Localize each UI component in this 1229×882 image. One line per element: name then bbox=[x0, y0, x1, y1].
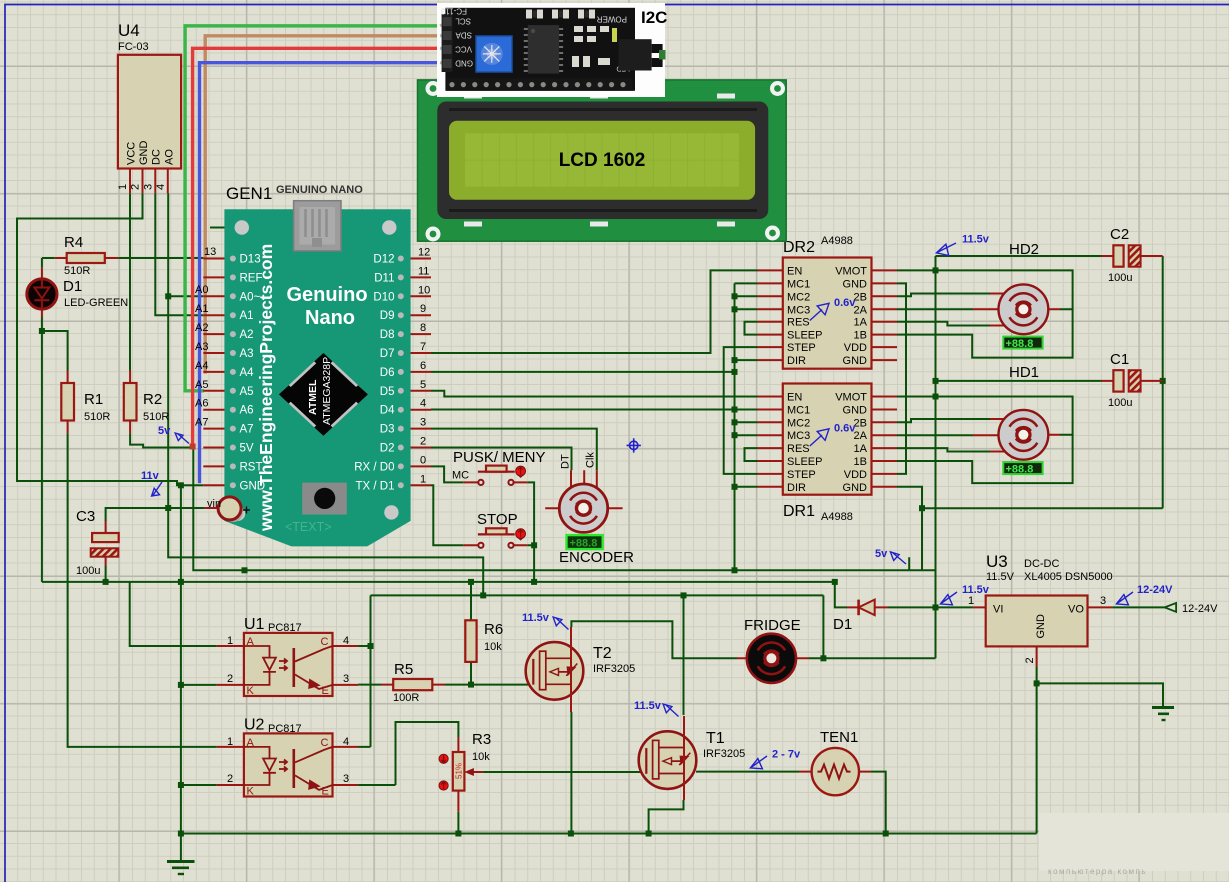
svg-text:A1: A1 bbox=[240, 310, 254, 322]
svg-text:K: K bbox=[247, 786, 255, 798]
blue potentiometer bbox=[476, 36, 512, 72]
svg-text:12-24V: 12-24V bbox=[1137, 584, 1173, 596]
net labels left bbox=[195, 246, 216, 429]
svg-text:DR2: DR2 bbox=[783, 239, 815, 256]
annotation 5v near rails bbox=[875, 548, 906, 564]
DC-DC U3 XL4005 bbox=[968, 552, 1113, 667]
U3 VI wire bbox=[936, 606, 974, 608]
wire U1 pin1 from rail C bbox=[130, 582, 217, 646]
driver DR2 A4988 bbox=[758, 235, 898, 369]
wire R1 top to D1 net bbox=[42, 331, 68, 371]
svg-text:3: 3 bbox=[420, 417, 426, 429]
annotation 12-24V at U3 VO bbox=[1116, 584, 1173, 605]
svg-text:IRF3205: IRF3205 bbox=[593, 663, 635, 675]
svg-text:DT: DT bbox=[560, 454, 572, 469]
svg-text:4: 4 bbox=[343, 635, 349, 647]
wire D4 to MC bus bbox=[431, 409, 735, 411]
V7 right vertical bbox=[1162, 256, 1164, 508]
svg-text:ENCODER: ENCODER bbox=[559, 549, 634, 566]
svg-text:LCD 1602: LCD 1602 bbox=[559, 150, 646, 171]
11.5v vertical V4 bbox=[935, 256, 937, 658]
wire D13 to R4 bbox=[118, 257, 203, 259]
svg-text:0.6v: 0.6v bbox=[834, 297, 856, 309]
svg-text:EN: EN bbox=[787, 392, 802, 404]
pin dots bbox=[230, 256, 404, 489]
svg-text:A7: A7 bbox=[240, 424, 254, 436]
mounting holes bbox=[235, 220, 249, 234]
svg-text:2: 2 bbox=[420, 436, 426, 448]
svg-text:R2: R2 bbox=[143, 391, 162, 408]
svg-text:E: E bbox=[322, 786, 329, 798]
svg-text:8: 8 bbox=[420, 322, 426, 334]
svg-text:10: 10 bbox=[418, 284, 430, 296]
svg-text:TEN1: TEN1 bbox=[820, 729, 858, 746]
svg-text:5: 5 bbox=[420, 379, 426, 391]
svg-text:EN: EN bbox=[787, 265, 802, 277]
svg-text:D7: D7 bbox=[380, 348, 395, 360]
svg-text:R1: R1 bbox=[84, 391, 103, 408]
D1 diode to VI node bbox=[888, 606, 936, 608]
svg-text:GEN1: GEN1 bbox=[226, 184, 272, 203]
wire GND blue bbox=[200, 63, 441, 484]
svg-text:E: E bbox=[322, 685, 329, 697]
svg-text:1A: 1A bbox=[854, 443, 868, 455]
MC bus stubs DR1 bbox=[735, 410, 758, 487]
svg-text:C2: C2 bbox=[1110, 226, 1129, 243]
svg-text:11.5v: 11.5v bbox=[522, 612, 550, 624]
button PUSK/MENY bbox=[452, 449, 546, 485]
DR2 GND to DR1 VDD tie bbox=[897, 283, 906, 474]
wire U2 pin2 to GND vertical bbox=[181, 784, 217, 786]
svg-text:GND: GND bbox=[1035, 614, 1047, 639]
svg-text:+88.8: +88.8 bbox=[570, 538, 598, 550]
LED D1 LED-GREEN bbox=[27, 268, 128, 317]
svg-text:HD2: HD2 bbox=[1009, 241, 1039, 258]
svg-text:LED-GREEN: LED-GREEN bbox=[64, 297, 128, 309]
svg-text:K: K bbox=[247, 685, 255, 697]
svg-text:+88.8: +88.8 bbox=[1006, 338, 1034, 350]
svg-text:A4988: A4988 bbox=[821, 235, 853, 247]
svg-text:510R: 510R bbox=[84, 411, 110, 423]
svg-text:A: A bbox=[247, 737, 255, 749]
bottom link rail from V5 to V7 bbox=[922, 507, 1163, 509]
main IC bbox=[528, 25, 559, 74]
svg-text:D8: D8 bbox=[380, 329, 395, 341]
T1 source jog to rail bbox=[649, 800, 684, 834]
output flag 12-24V bbox=[1165, 603, 1219, 615]
rotary ENCODER bbox=[545, 452, 634, 566]
svg-text:51%: 51% bbox=[455, 763, 464, 779]
wire D1 cathode down to rail C bbox=[41, 317, 43, 582]
svg-text:100u: 100u bbox=[76, 565, 100, 577]
svg-text:A6: A6 bbox=[240, 405, 254, 417]
svg-text:VI: VI bbox=[993, 604, 1003, 616]
I2C serial module (photo) bbox=[437, 3, 667, 97]
wire C3 bottom to rail C bbox=[105, 566, 107, 582]
wire RX/D0 to PUSK button bbox=[431, 466, 463, 482]
svg-text:XL4005 DSN5000: XL4005 DSN5000 bbox=[1024, 571, 1113, 583]
svg-text:GND: GND bbox=[843, 355, 868, 367]
DR2 RES-SLEEP tie bbox=[745, 322, 758, 335]
TEN1 left wire bbox=[696, 771, 799, 773]
driver DR1 A4988 bbox=[758, 384, 898, 524]
svg-text:1: 1 bbox=[420, 473, 426, 485]
svg-text:MC3: MC3 bbox=[787, 430, 810, 442]
svg-text:T1: T1 bbox=[706, 730, 725, 747]
svg-text:STOP: STOP bbox=[477, 511, 518, 528]
ATMEGA chip U-chip bbox=[279, 353, 368, 436]
svg-text:SLEEP: SLEEP bbox=[787, 456, 822, 468]
svg-text:ATMEL: ATMEL bbox=[307, 379, 319, 415]
wire U4.DC to A1 bbox=[155, 193, 203, 315]
wire VCC red bbox=[193, 48, 440, 446]
svg-text:D5: D5 bbox=[380, 386, 395, 398]
DR1 1B to HD1 bottom loop bbox=[897, 435, 1073, 483]
wire U1 pin2 to GND vertical bbox=[181, 684, 217, 686]
svg-text:A5: A5 bbox=[240, 386, 254, 398]
component U4 FC-03 bbox=[117, 21, 181, 193]
svg-text:FC-113: FC-113 bbox=[440, 7, 467, 16]
capacitor C1 100u bbox=[1102, 351, 1163, 409]
svg-text:100u: 100u bbox=[1108, 397, 1132, 409]
D1 diode branch from rail C bbox=[835, 582, 847, 608]
rail C horizontal bbox=[42, 581, 835, 583]
MC bus stubs DR2 bbox=[735, 283, 758, 360]
right connector bbox=[619, 39, 652, 70]
svg-text:A1: A1 bbox=[195, 303, 208, 315]
svg-text:D10: D10 bbox=[373, 291, 394, 303]
svg-text:C3: C3 bbox=[76, 508, 95, 525]
DR2 1A to HD2 bbox=[897, 322, 990, 326]
svg-text:HD1: HD1 bbox=[1009, 364, 1039, 381]
svg-text:13: 13 bbox=[204, 246, 216, 258]
wire R1 bottom to U2 pin1 bbox=[68, 433, 217, 747]
svg-text:2B: 2B bbox=[854, 417, 867, 429]
svg-text:2B: 2B bbox=[854, 291, 867, 303]
svg-text:A4988: A4988 bbox=[821, 511, 853, 523]
svg-text:0.6v: 0.6v bbox=[834, 423, 856, 435]
svg-text:C1: C1 bbox=[1110, 351, 1129, 368]
smd top row bbox=[526, 10, 595, 19]
svg-text:VDD: VDD bbox=[844, 342, 867, 354]
svg-text:2: 2 bbox=[1024, 657, 1036, 663]
wire GND main vertical to bottom rail bbox=[180, 485, 182, 861]
diode D1 (power) bbox=[833, 600, 888, 633]
button STOP bbox=[463, 511, 527, 548]
DR1 VMOT wire and HD1 right loop bbox=[897, 397, 1073, 435]
annotation 11.5v at U3 VI bbox=[940, 584, 989, 605]
svg-text:VMOT: VMOT bbox=[835, 392, 867, 404]
nano pin stubs right bbox=[405, 259, 431, 486]
smd cluster right bbox=[572, 26, 610, 67]
R5 to T2 gate bbox=[445, 684, 532, 686]
svg-text:GENUINO NANO: GENUINO NANO bbox=[276, 184, 363, 196]
wire SCL green bbox=[185, 26, 440, 391]
potentiometer R3 10k bbox=[439, 731, 491, 812]
rail B (5v net) vertical from VCC junction and horizontal bbox=[193, 448, 909, 571]
blue target marker bbox=[627, 438, 641, 452]
optocoupler U1 PC817 bbox=[217, 616, 358, 697]
svg-text:R5: R5 bbox=[394, 661, 413, 678]
svg-text:I2C: I2C bbox=[641, 8, 667, 27]
svg-text:MC1: MC1 bbox=[787, 278, 810, 290]
T2 source to bottom rail bbox=[570, 712, 572, 834]
wire R2 bottom to 5v node bbox=[130, 433, 194, 447]
vin pin bbox=[223, 502, 243, 522]
svg-text:VCC: VCC bbox=[455, 45, 472, 54]
stepper motor HD1 bbox=[973, 364, 1060, 475]
svg-text:A3: A3 bbox=[195, 341, 208, 353]
svg-text:VMOT: VMOT bbox=[835, 265, 867, 277]
optocoupler U2 PC817 bbox=[217, 717, 358, 798]
svg-text:11.5v: 11.5v bbox=[962, 234, 990, 246]
wire D2 to encoder DT bbox=[431, 448, 572, 471]
svg-text:Clk: Clk bbox=[585, 452, 597, 468]
svg-text:10k: 10k bbox=[472, 751, 490, 763]
svg-text:FRIDGE: FRIDGE bbox=[744, 617, 801, 634]
rail B right link down to 11.5v vertical bbox=[909, 557, 935, 570]
svg-text:3: 3 bbox=[343, 673, 349, 685]
svg-text:U4: U4 bbox=[118, 21, 140, 40]
LCD 1602 display bbox=[418, 80, 787, 242]
DR1 2A to HD1 bbox=[897, 434, 973, 436]
svg-text:5V: 5V bbox=[240, 443, 254, 455]
svg-text:A0: A0 bbox=[195, 284, 208, 296]
svg-text:Genuino: Genuino bbox=[286, 284, 367, 306]
wire U4.GND to 11v rail and nano GND row bbox=[17, 193, 203, 485]
svg-text:MC2: MC2 bbox=[787, 291, 810, 303]
svg-text:VO: VO bbox=[1068, 604, 1084, 616]
DR2 1B to HD2 bottom loop bbox=[897, 309, 1073, 357]
svg-text:C: C bbox=[321, 737, 329, 749]
svg-text:FC-03: FC-03 bbox=[118, 41, 149, 53]
DR1 GND bottom to V5 vertical bbox=[897, 487, 922, 571]
wire D6 to MC bus bbox=[431, 371, 735, 373]
DR2 VMOT wire and HD2 right loop bbox=[897, 270, 1073, 309]
wire U4.AO vertical to vin node and rail A bbox=[168, 193, 483, 595]
U3 GND pin wire down and ground branch bbox=[1037, 667, 1163, 834]
svg-text:D12: D12 bbox=[373, 254, 394, 266]
U2 pin3 to R3 top bbox=[358, 722, 458, 785]
wire D3 to encoder Clk bbox=[431, 429, 597, 471]
svg-text:2: 2 bbox=[130, 184, 142, 190]
grey leads bbox=[440, 21, 452, 64]
MC bus vertical V3 bbox=[734, 283, 736, 570]
bottom header strip bbox=[446, 78, 632, 91]
svg-text:U3: U3 bbox=[986, 552, 1008, 571]
svg-text:4: 4 bbox=[343, 736, 349, 748]
svg-text:12: 12 bbox=[418, 247, 430, 259]
svg-text:A5: A5 bbox=[195, 379, 208, 391]
svg-text:A2: A2 bbox=[195, 322, 208, 334]
wire buttons right vertical to rail C bbox=[527, 482, 534, 582]
svg-text:IRF3205: IRF3205 bbox=[703, 748, 745, 760]
mosfet T1 IRF3205 bbox=[639, 716, 746, 800]
reset button bbox=[302, 483, 347, 515]
usb connector bbox=[294, 201, 341, 251]
annotation 11v bbox=[141, 470, 162, 496]
svg-text:1B: 1B bbox=[854, 330, 867, 342]
svg-text:A: A bbox=[247, 636, 255, 648]
wire SDA brown bbox=[205, 36, 440, 372]
svg-text:D4: D4 bbox=[380, 405, 395, 417]
svg-text:GND: GND bbox=[455, 59, 473, 68]
svg-text:POWER: POWER bbox=[597, 15, 627, 24]
svg-text:A6: A6 bbox=[195, 398, 208, 410]
svg-text:A4: A4 bbox=[195, 360, 208, 372]
board body bbox=[224, 209, 410, 546]
mirrored pin labels bbox=[455, 17, 473, 68]
svg-text:A2: A2 bbox=[240, 329, 254, 341]
svg-text:PC817: PC817 bbox=[268, 723, 302, 735]
svg-text:11: 11 bbox=[418, 265, 429, 277]
svg-text:DR1: DR1 bbox=[783, 503, 815, 520]
capacitor C2 100u bbox=[1102, 226, 1163, 284]
svg-text:2A: 2A bbox=[854, 304, 868, 316]
annotation 0.6v DR2 bbox=[810, 297, 856, 321]
svg-text:MC1: MC1 bbox=[787, 405, 810, 417]
svg-text:TX / D1: TX / D1 bbox=[356, 480, 395, 492]
black pcb bbox=[445, 8, 635, 91]
svg-text:U1: U1 bbox=[244, 616, 265, 633]
rail D horizontal bbox=[371, 594, 824, 596]
annotation 0.6v DR1 bbox=[810, 423, 856, 447]
svg-text:+88.8: +88.8 bbox=[1006, 463, 1034, 475]
svg-text:VDD: VDD bbox=[844, 469, 867, 481]
svg-text:D2: D2 bbox=[380, 443, 395, 455]
resistor R4 bbox=[55, 234, 119, 277]
svg-text:C: C bbox=[321, 636, 329, 648]
svg-text:A7: A7 bbox=[195, 417, 208, 429]
bezel tabs bbox=[464, 94, 735, 227]
svg-text:1: 1 bbox=[968, 595, 974, 607]
annotation 11.5v at T1 bbox=[634, 700, 679, 717]
wire D7 to DR2 EN bbox=[431, 270, 758, 353]
nano pin stubs left bbox=[203, 259, 229, 486]
DR1 RES-SLEEP tie bbox=[745, 448, 758, 461]
svg-text:2 - 7v: 2 - 7v bbox=[772, 749, 801, 761]
svg-text:D11: D11 bbox=[374, 272, 394, 284]
rail D descender to FRIDGE right row bbox=[822, 595, 824, 658]
svg-text:11.5V: 11.5V bbox=[986, 571, 1015, 583]
svg-text:MC: MC bbox=[452, 470, 469, 482]
svg-text:3: 3 bbox=[1100, 595, 1106, 607]
FRIDGE right row to U3 VI vertical bbox=[809, 657, 936, 659]
svg-text:4: 4 bbox=[420, 398, 426, 410]
svg-text:DC: DC bbox=[151, 149, 163, 165]
svg-text:D6: D6 bbox=[380, 367, 395, 379]
annotation 11.5v at T2 bbox=[522, 612, 569, 630]
ground symbol bottom-left bbox=[167, 862, 195, 875]
U3 VO wire to output flag bbox=[1112, 606, 1165, 608]
resistor R6 10k bbox=[465, 620, 503, 662]
svg-text:4: 4 bbox=[155, 184, 167, 190]
R6 top from rail C bbox=[470, 582, 472, 620]
rail D left vertical to U1/U2 pin4 bbox=[358, 595, 370, 747]
svg-text:GND: GND bbox=[843, 278, 868, 290]
motor FRIDGE bbox=[737, 617, 809, 683]
svg-text:D1: D1 bbox=[833, 616, 852, 633]
DR1 2B to HD1 bbox=[897, 419, 990, 422]
svg-text:ATMEGA328P: ATMEGA328P bbox=[321, 357, 333, 425]
svg-text:VCC: VCC bbox=[126, 142, 138, 165]
U1 pin3 to R5 bbox=[358, 684, 381, 686]
svg-text:RES: RES bbox=[787, 443, 810, 455]
svg-text:1: 1 bbox=[117, 184, 129, 190]
svg-text:PC817: PC817 bbox=[268, 622, 302, 634]
annotation 11.5v top right bbox=[936, 234, 989, 256]
svg-text:2: 2 bbox=[227, 773, 233, 785]
wire U4.VCC to R2 top bbox=[129, 193, 131, 370]
svg-text:Nano: Nano bbox=[305, 307, 355, 329]
svg-text:SLEEP: SLEEP bbox=[787, 330, 822, 342]
svg-text:5v: 5v bbox=[158, 425, 171, 437]
svg-text:2: 2 bbox=[227, 673, 233, 685]
svg-text:STEP: STEP bbox=[787, 342, 816, 354]
svg-text:A3: A3 bbox=[240, 348, 254, 360]
svg-text:10k: 10k bbox=[484, 641, 502, 653]
svg-text:R6: R6 bbox=[484, 621, 503, 638]
svg-text:D3: D3 bbox=[380, 424, 395, 436]
ground symbol right bbox=[1152, 708, 1174, 721]
svg-text:7: 7 bbox=[420, 341, 426, 353]
svg-text:R3: R3 bbox=[472, 731, 491, 748]
DR1 1A to HD1 bbox=[897, 448, 990, 451]
svg-text:3: 3 bbox=[343, 773, 349, 785]
svg-text:100R: 100R bbox=[393, 692, 419, 704]
svg-text:510R: 510R bbox=[64, 265, 90, 277]
wire D5 to DR1 EN bbox=[431, 391, 758, 397]
DR2 STEP to DR1 STEP tie bbox=[724, 347, 758, 474]
svg-text:5v: 5v bbox=[875, 548, 888, 560]
DR2 2B to HD2 bbox=[897, 294, 990, 297]
svg-text:0: 0 bbox=[420, 454, 426, 466]
svg-text:12-24V: 12-24V bbox=[1182, 603, 1218, 615]
svg-text:1: 1 bbox=[227, 635, 233, 647]
R3 bottom to rail bbox=[457, 812, 459, 834]
wire C3 top to vin row bbox=[106, 508, 205, 521]
svg-text:www.TheEngineeringProjects.com: www.TheEngineeringProjects.com bbox=[256, 244, 276, 532]
capacitor C3 100u bbox=[76, 508, 119, 577]
svg-text:D9: D9 bbox=[380, 310, 395, 322]
svg-text:6: 6 bbox=[420, 360, 426, 372]
svg-text:vin: vin bbox=[207, 498, 221, 510]
R3 wiper to T1 gate bbox=[483, 771, 646, 773]
R6 bottom to gate row bbox=[470, 662, 472, 685]
C1 row wire bbox=[936, 380, 1102, 382]
svg-text:RES: RES bbox=[787, 317, 810, 329]
svg-text:GND: GND bbox=[843, 482, 868, 494]
svg-text:DIR: DIR bbox=[787, 355, 806, 367]
TEN1 right wire to rail bbox=[871, 772, 886, 834]
svg-text:DC-DC: DC-DC bbox=[1024, 558, 1059, 570]
svg-text:SCL: SCL bbox=[455, 17, 471, 26]
svg-text:<TEXT>: <TEXT> bbox=[285, 520, 332, 534]
svg-text:2A: 2A bbox=[854, 430, 868, 442]
resistor R5 100R bbox=[381, 661, 445, 704]
mosfet T2 IRF3205 bbox=[526, 627, 636, 712]
annotation 5v left bbox=[158, 425, 189, 444]
T1 drain from rail D bbox=[683, 595, 685, 715]
bottom rail bbox=[181, 833, 1037, 835]
heater TEN1 bbox=[799, 729, 871, 795]
svg-text:1B: 1B bbox=[854, 456, 867, 468]
DR2 2A to HD2 bbox=[897, 308, 973, 310]
svg-text:11.5v: 11.5v bbox=[962, 584, 990, 596]
svg-text:T2: T2 bbox=[593, 645, 612, 662]
svg-text:100u: 100u bbox=[1108, 272, 1132, 284]
annotation 2-7v at TEN1 bbox=[750, 749, 801, 769]
